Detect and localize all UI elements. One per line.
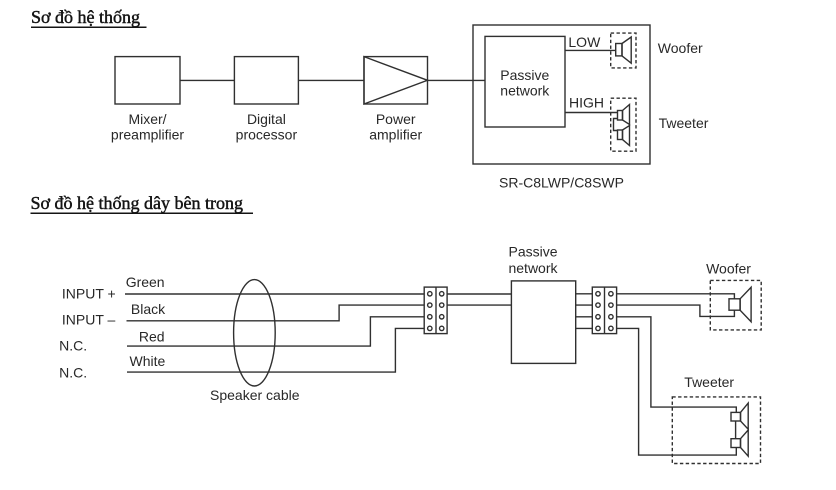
svg-text:HIGH: HIGH xyxy=(569,95,604,111)
svg-text:Red: Red xyxy=(139,328,165,344)
wire amplifier to speaker box xyxy=(428,79,486,81)
svg-text:Power: Power xyxy=(376,111,416,127)
label Power amplifier xyxy=(369,111,422,143)
svg-text:Passive: Passive xyxy=(508,243,557,259)
output terminal block xyxy=(592,287,616,334)
wire LOW to woofer xyxy=(565,49,616,51)
amplifier box with triangle xyxy=(364,57,428,104)
wire green input xyxy=(125,293,424,295)
wire terminal to passive network (-) xyxy=(447,304,511,306)
label Passive network (wiring diagram) xyxy=(508,243,558,276)
heading: So do he thong xyxy=(31,7,147,27)
svg-text:White: White xyxy=(130,353,166,369)
svg-text:network: network xyxy=(508,260,558,276)
wire black input xyxy=(127,305,425,321)
svg-text:Mixer/: Mixer/ xyxy=(128,111,166,127)
svg-text:Tweeter: Tweeter xyxy=(659,115,709,131)
svg-text:LOW: LOW xyxy=(568,34,601,50)
svg-text:preamplifier: preamplifier xyxy=(111,127,184,143)
wire terminal to passive network (+) xyxy=(447,293,511,295)
svg-text:Sơ đồ hệ thống dây bên trong: Sơ đồ hệ thống dây bên trong xyxy=(31,193,244,213)
svg-text:INPUT +: INPUT + xyxy=(62,286,116,302)
svg-text:INPUT –: INPUT – xyxy=(62,312,116,328)
woofer speaker symbol (wiring diagram) xyxy=(710,280,761,330)
label Mixer/preamplifier xyxy=(111,111,184,143)
svg-text:Black: Black xyxy=(131,301,166,317)
woofer speaker symbol (system diagram) xyxy=(611,33,636,68)
wire woofer + xyxy=(617,294,735,299)
box Passive network (system diagram) xyxy=(485,36,565,127)
wire mixer to digital xyxy=(180,79,234,81)
svg-text:Sơ đồ hệ thống: Sơ đồ hệ thống xyxy=(31,7,140,27)
svg-text:Digital: Digital xyxy=(247,111,286,127)
wire red input xyxy=(127,317,424,346)
wire tweeter + xyxy=(617,317,737,413)
svg-text:processor: processor xyxy=(236,127,298,143)
box Digital processor xyxy=(234,57,298,104)
speaker enclosure box SR-C8LWP/C8SWP xyxy=(473,25,650,164)
svg-text:network: network xyxy=(500,83,550,99)
svg-text:amplifier: amplifier xyxy=(369,127,422,143)
svg-text:Woofer: Woofer xyxy=(706,260,751,276)
svg-text:Speaker cable: Speaker cable xyxy=(210,387,300,403)
wire tweeter - xyxy=(617,328,737,455)
svg-text:Tweeter: Tweeter xyxy=(684,374,734,390)
box Mixer/preamplifier xyxy=(115,57,180,104)
svg-text:Passive: Passive xyxy=(500,67,549,83)
wire white input xyxy=(127,328,424,372)
wire digital to amplifier xyxy=(298,79,364,81)
speaker cable ellipse xyxy=(234,280,276,386)
wire woofer - xyxy=(617,305,735,316)
input terminal block xyxy=(424,287,447,334)
wires passive network to output terminal xyxy=(576,294,593,329)
box Passive network (wiring diagram) xyxy=(511,281,575,364)
label Digital processor xyxy=(236,111,298,143)
tweeter speaker symbol (system diagram) xyxy=(611,98,636,151)
svg-text:N.C.: N.C. xyxy=(59,364,87,380)
svg-text:Green: Green xyxy=(126,274,165,290)
label Passive network xyxy=(500,67,550,99)
wire HIGH to tweeter xyxy=(565,112,618,114)
svg-text:SR-C8LWP/C8SWP: SR-C8LWP/C8SWP xyxy=(499,175,624,191)
tweeter speaker symbol (wiring diagram) xyxy=(672,397,760,464)
svg-text:N.C.: N.C. xyxy=(59,338,87,354)
heading: So do he thong day ben trong xyxy=(31,193,254,213)
svg-text:Woofer: Woofer xyxy=(658,40,703,56)
